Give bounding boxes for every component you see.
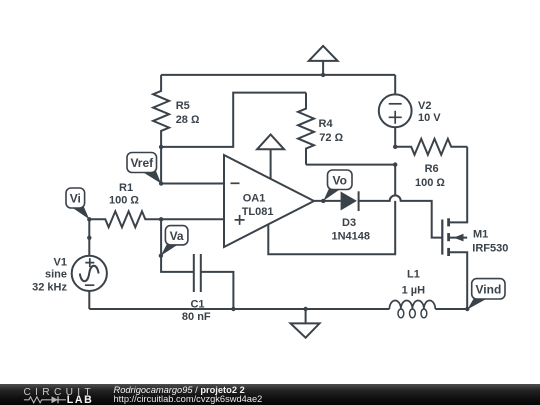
svg-text:IRF530: IRF530	[472, 243, 508, 255]
node Va flag	[161, 226, 188, 256]
transistor M1 (NMOS)	[442, 147, 508, 309]
node: Vi junction	[87, 217, 91, 221]
capacitor C1	[182, 254, 236, 323]
svg-text:R6: R6	[425, 163, 439, 175]
node: Vind junction	[465, 307, 469, 311]
svg-text:LAB: LAB	[67, 394, 94, 405]
svg-text:Vref: Vref	[130, 156, 154, 170]
node: R5 bottom junction	[159, 145, 163, 149]
node Vref flag	[127, 153, 161, 184]
svg-text:TL081: TL081	[242, 206, 274, 218]
svg-text:R5: R5	[176, 100, 190, 112]
svg-text:D3: D3	[342, 217, 356, 229]
node Vo flag	[323, 170, 352, 201]
wire diode to gate with hop over V2 line	[390, 195, 401, 201]
node: R4 tap junction	[393, 162, 397, 166]
svg-text:R1: R1	[119, 182, 133, 194]
diode D3	[314, 191, 370, 242]
voltage source V2	[379, 75, 441, 147]
wire R4 bottom to V2+ node	[306, 164, 395, 166]
node Vi flag	[66, 188, 89, 219]
voltage source V1	[32, 219, 107, 309]
svg-text:Vi: Vi	[70, 192, 81, 206]
resistor R6	[395, 139, 467, 189]
power op-amp VDD arrow	[257, 135, 284, 179]
node: Vref junction	[159, 181, 163, 185]
svg-text:100 Ω: 100 Ω	[109, 195, 139, 207]
node: op-amp output junction	[321, 199, 325, 203]
svg-text:C1: C1	[190, 298, 204, 310]
footer bar	[0, 384, 540, 405]
logo CircuitLab	[0, 384, 110, 405]
svg-text:32 kHz: 32 kHz	[32, 282, 67, 294]
svg-text:R4: R4	[319, 118, 334, 130]
svg-text:M1: M1	[473, 228, 488, 240]
node: R1 right junction	[159, 217, 163, 221]
power VDD arrow (net VDD)	[309, 46, 338, 77]
svg-text:V2: V2	[418, 100, 431, 112]
resistor R1	[89, 182, 161, 227]
svg-text:72 Ω: 72 Ω	[319, 132, 343, 144]
inductor L1	[389, 269, 467, 318]
wire R1 to op-amp non-inverting input	[161, 218, 224, 220]
op-amp OA1	[224, 155, 314, 247]
svg-text:1 µH: 1 µH	[402, 284, 426, 296]
resistor R5	[153, 75, 200, 147]
node Vind flag	[467, 279, 505, 310]
svg-text:1N4148: 1N4148	[332, 231, 371, 243]
wire Vref to op-amp inverting input	[161, 183, 224, 185]
wire top rail VDD	[161, 74, 395, 76]
svg-text:10 V: 10 V	[418, 112, 441, 124]
wire bottom rail	[89, 308, 389, 310]
wire Va vertical	[161, 219, 194, 272]
node: V2+ / R6 junction	[393, 145, 397, 149]
svg-text:V1: V1	[54, 256, 67, 268]
svg-text:100 Ω: 100 Ω	[415, 177, 445, 189]
ground	[291, 307, 320, 338]
svg-text:L1: L1	[407, 269, 420, 281]
svg-text:sine: sine	[45, 268, 67, 280]
svg-text:OA1: OA1	[243, 193, 266, 205]
resistor R4	[298, 93, 344, 165]
wire feedback: R5 bottom to R4 top	[161, 93, 306, 147]
svg-text:Vo: Vo	[332, 173, 346, 187]
svg-text:28 Ω: 28 Ω	[176, 114, 200, 126]
wire op-amp V- to V2+	[268, 165, 395, 255]
node: Va junction	[159, 254, 163, 258]
svg-text:Vind: Vind	[476, 283, 502, 297]
svg-text:80 nF: 80 nF	[182, 311, 211, 323]
wire Vref vertical	[160, 147, 162, 184]
svg-text:Va: Va	[170, 229, 184, 243]
